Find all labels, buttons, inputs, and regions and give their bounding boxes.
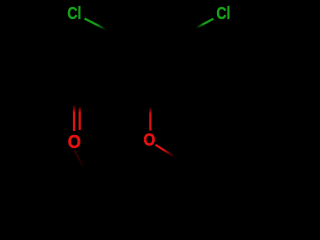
svg-text:Cl: Cl xyxy=(216,3,230,23)
svg-text:O: O xyxy=(68,131,81,152)
svg-text:Cl: Cl xyxy=(67,3,81,23)
svg-text:O: O xyxy=(144,129,156,150)
